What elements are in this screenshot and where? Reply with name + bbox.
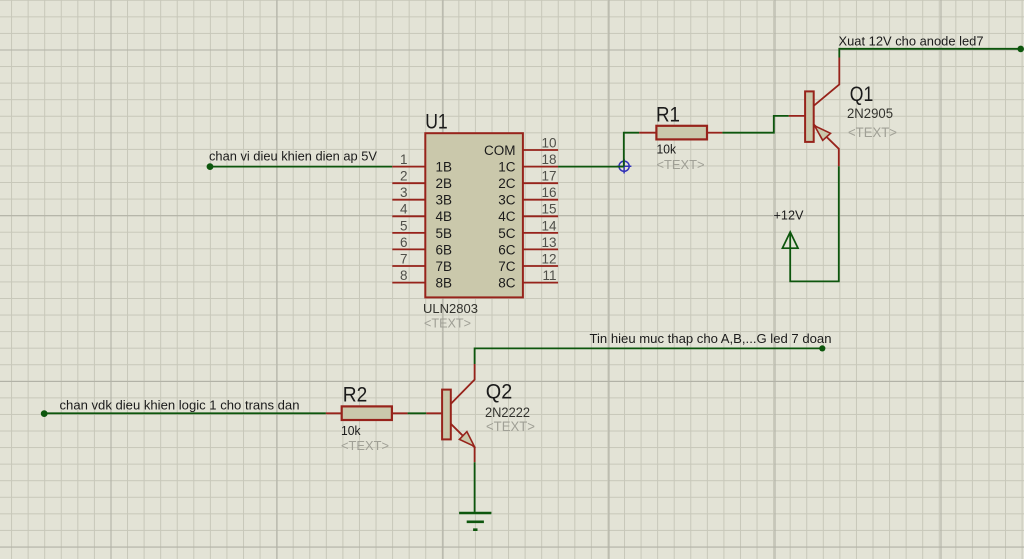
wire: Q2 emitter to ground: [474, 462, 476, 512]
transistor Q2 base bar: [442, 390, 451, 440]
transistor Q1 collector line: [814, 58, 840, 106]
svg-text:<TEXT>: <TEXT>: [657, 157, 705, 172]
transistor Q2 emitter line: [451, 424, 475, 463]
svg-text:5B: 5B: [436, 226, 453, 241]
svg-text:<TEXT>: <TEXT>: [341, 438, 389, 453]
wire: U1 pin 18 (1C) to junction node: [558, 166, 624, 168]
node dot: right end of signal rail: [819, 345, 825, 351]
svg-text:2C: 2C: [498, 176, 516, 191]
op IC U1 body (ULN2803): [425, 133, 523, 297]
wire: Q1 emitter down, left and up to +12V symbol: [790, 166, 839, 281]
svg-text:ULN2803: ULN2803: [423, 301, 478, 316]
svg-text:<TEXT>: <TEXT>: [848, 125, 897, 140]
svg-text:R2: R2: [343, 384, 368, 407]
U1 left pin stubs (pins 1-8): [392, 167, 425, 283]
svg-text:6B: 6B: [436, 242, 453, 257]
svg-text:5C: 5C: [498, 226, 516, 241]
U1 left pin names 1B-8B: [436, 160, 453, 291]
svg-text:12: 12: [541, 251, 556, 266]
svg-text:1B: 1B: [436, 160, 453, 175]
svg-text:17: 17: [541, 169, 556, 184]
svg-text:6C: 6C: [498, 242, 516, 257]
resistor R1 right pin stub: [707, 132, 722, 134]
junction origin marker (blue): [617, 159, 632, 174]
svg-text:chan vi dieu khien dien ap 5V: chan vi dieu khien dien ap 5V: [209, 148, 377, 163]
resistor R2 right pin stub: [392, 412, 408, 414]
svg-text:4B: 4B: [436, 209, 453, 224]
svg-text:13: 13: [541, 235, 556, 250]
resistor R2 left pin stub: [326, 412, 342, 414]
svg-text:8B: 8B: [436, 276, 453, 291]
svg-text:COM: COM: [484, 143, 516, 158]
resistor R2 body: [342, 406, 392, 420]
svg-text:2N2222: 2N2222: [485, 405, 530, 420]
svg-text:2N2905: 2N2905: [847, 106, 893, 121]
U1 left pin numbers 1-8: [400, 152, 408, 283]
svg-text:3C: 3C: [498, 193, 516, 208]
resistor R1 left pin stub: [639, 132, 656, 134]
wire: input net to U1 pin 1: [210, 166, 392, 168]
svg-text:18: 18: [541, 152, 556, 167]
U1 right pin stubs (pins 10,18,17,16,15,14,13,12,11): [523, 150, 558, 283]
wire: Q2 collector to signal rail: [475, 348, 823, 364]
svg-text:8C: 8C: [498, 276, 516, 291]
svg-text:1C: 1C: [498, 160, 516, 175]
svg-text:10k: 10k: [657, 142, 677, 157]
svg-text:Tin hieu muc thap cho A,B,...G: Tin hieu muc thap cho A,B,...G led 7 doa…: [590, 331, 832, 346]
svg-text:16: 16: [541, 185, 556, 200]
svg-text:Q1: Q1: [850, 83, 874, 106]
svg-text:4C: 4C: [498, 209, 516, 224]
U1 right pin names COM,1C-8C: [484, 143, 516, 291]
node dot: right end of 12V anode rail: [1017, 46, 1024, 53]
power symbol +12V (arrow): [782, 232, 798, 248]
ground symbol: [459, 513, 491, 530]
svg-text:U1: U1: [425, 111, 448, 134]
transistor Q2 base pin stub: [426, 412, 442, 414]
wire: R1 to Q1 base (jog up): [722, 116, 788, 133]
svg-text:Q2: Q2: [486, 380, 513, 403]
Q2 emitter arrow (NPN, points away): [459, 432, 474, 447]
svg-text:Xuat 12V cho anode led7: Xuat 12V cho anode led7: [839, 33, 984, 48]
wire: junction up and right to R1: [624, 133, 639, 167]
svg-text:5: 5: [400, 218, 408, 233]
wire: R2 to Q2 base: [408, 412, 427, 414]
Q1 emitter arrow (PNP, points to base bar): [815, 126, 831, 141]
svg-text:6: 6: [400, 235, 408, 250]
wire: Q1 collector to top output rail: [839, 49, 1020, 58]
svg-text:7B: 7B: [436, 259, 453, 274]
svg-text:14: 14: [541, 218, 557, 233]
svg-text:<TEXT>: <TEXT>: [424, 316, 471, 331]
svg-text:2B: 2B: [436, 176, 453, 191]
wire: bottom input net to R2: [44, 412, 326, 414]
svg-text:<TEXT>: <TEXT>: [486, 419, 535, 434]
svg-text:10k: 10k: [341, 423, 361, 438]
svg-text:3B: 3B: [436, 193, 453, 208]
node dot: left end of logic-1 control net: [41, 410, 48, 417]
svg-text:+12V: +12V: [774, 207, 804, 222]
svg-text:7: 7: [400, 251, 408, 266]
transistor Q1 emitter line: [814, 124, 839, 166]
svg-text:15: 15: [541, 202, 556, 217]
svg-text:4: 4: [400, 202, 408, 217]
transistor Q1 base bar: [805, 91, 814, 141]
svg-text:1: 1: [400, 152, 408, 167]
transistor Q2 collector line: [451, 364, 475, 404]
svg-text:10: 10: [541, 135, 556, 150]
svg-text:2: 2: [400, 169, 408, 184]
svg-text:chan vdk dieu khien logic 1 ch: chan vdk dieu khien logic 1 cho trans da…: [60, 398, 300, 413]
transistor Q1 base pin stub: [789, 115, 805, 117]
resistor R1 body: [656, 126, 707, 140]
node dot: left end of 5V control net: [207, 163, 214, 170]
svg-text:7C: 7C: [498, 259, 516, 274]
svg-text:8: 8: [400, 268, 408, 283]
svg-text:3: 3: [400, 185, 408, 200]
svg-text:R1: R1: [656, 104, 680, 127]
U1 right pin numbers: [541, 135, 557, 283]
svg-text:11: 11: [542, 268, 556, 283]
